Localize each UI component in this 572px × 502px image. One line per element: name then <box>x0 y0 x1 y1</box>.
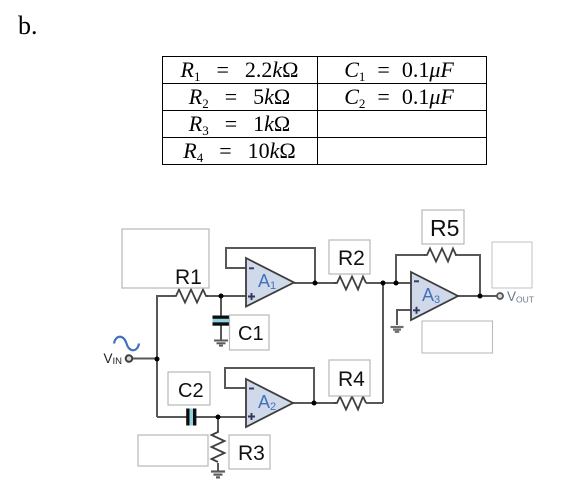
capacitor C2 (vertical plates) <box>186 409 196 426</box>
op-amp A2 <box>246 379 293 427</box>
wire: vertical from R2 node down to R4 output <box>382 283 384 403</box>
node: A2 output / feedback <box>312 401 317 406</box>
component value table <box>162 56 487 165</box>
source VIN sine symbol <box>114 337 139 351</box>
op-amp A1 <box>246 258 294 307</box>
ground (below R3) <box>211 472 225 478</box>
item label b. <box>18 11 38 41</box>
op-amp A3 <box>411 272 458 320</box>
svg-text:R2: R2 <box>338 247 365 270</box>
node: VIN junction on bus <box>155 357 160 362</box>
label box C2 <box>168 372 210 405</box>
wire: A1 output row through R2 to A3 minus <box>294 282 336 284</box>
wire: A2 output row through R4 <box>293 402 336 404</box>
wire: A3 output to VOUT terminal <box>458 295 497 297</box>
empty label box (top left) <box>122 229 209 288</box>
empty label box (bottom left) <box>138 435 208 466</box>
node: A1 output / feedback <box>313 281 318 286</box>
label box R5 <box>422 210 464 244</box>
node: A3 output / R5 <box>478 294 483 299</box>
wire: A1 feedback loop <box>226 248 315 283</box>
wire: R1 row into A1 plus input <box>156 295 174 297</box>
node: A3 minus / R5 branch <box>394 281 399 286</box>
node: junction C2/R3/A2+ <box>216 415 221 420</box>
wire: R5 feedback loop of A3 <box>396 255 425 283</box>
svg-text:VOUT: VOUT <box>507 289 534 305</box>
wire: left vertical bus from R1 down to C2 row <box>156 295 158 417</box>
resistor R3 (vertical) <box>212 430 225 462</box>
node: junction R1/C1/A1+ <box>219 294 224 299</box>
label box R3 <box>229 435 270 469</box>
wire: A3 plus input to ground <box>397 310 413 325</box>
ground (below C1) <box>214 341 228 346</box>
svg-text:VIN: VIN <box>104 351 123 367</box>
svg-text:R1: R1 <box>175 266 202 289</box>
label box C1 <box>230 315 270 350</box>
wire: R3 drop from C2 row <box>217 417 219 431</box>
svg-text:R3: R3 <box>238 442 265 465</box>
terminal VOUT <box>497 293 503 299</box>
label box R4 <box>329 360 370 396</box>
svg-text:C2: C2 <box>178 380 204 402</box>
wire: C1 drop from junction <box>220 296 222 316</box>
wire: C2 row from bus to A2 plus input <box>157 416 187 418</box>
resistor R1 <box>173 290 208 303</box>
ground (A3 plus input) <box>391 327 404 332</box>
empty label box (right of A3) <box>492 242 532 288</box>
resistor R2 <box>334 277 366 290</box>
node: R2 output / R4 branch <box>381 281 386 286</box>
svg-text:R4: R4 <box>338 368 365 391</box>
resistor R4 <box>334 397 366 410</box>
capacitor C1 (horizontal plates) <box>213 316 230 326</box>
svg-text:R5: R5 <box>430 215 459 241</box>
label box R2 <box>329 240 370 274</box>
wire: VIN to bus <box>131 358 157 360</box>
terminal VIN <box>126 355 133 362</box>
empty label box (below A3) <box>422 321 493 353</box>
svg-text:C1: C1 <box>238 323 264 345</box>
wire: A2 feedback loop <box>225 368 314 403</box>
resistor R5 <box>424 249 456 262</box>
